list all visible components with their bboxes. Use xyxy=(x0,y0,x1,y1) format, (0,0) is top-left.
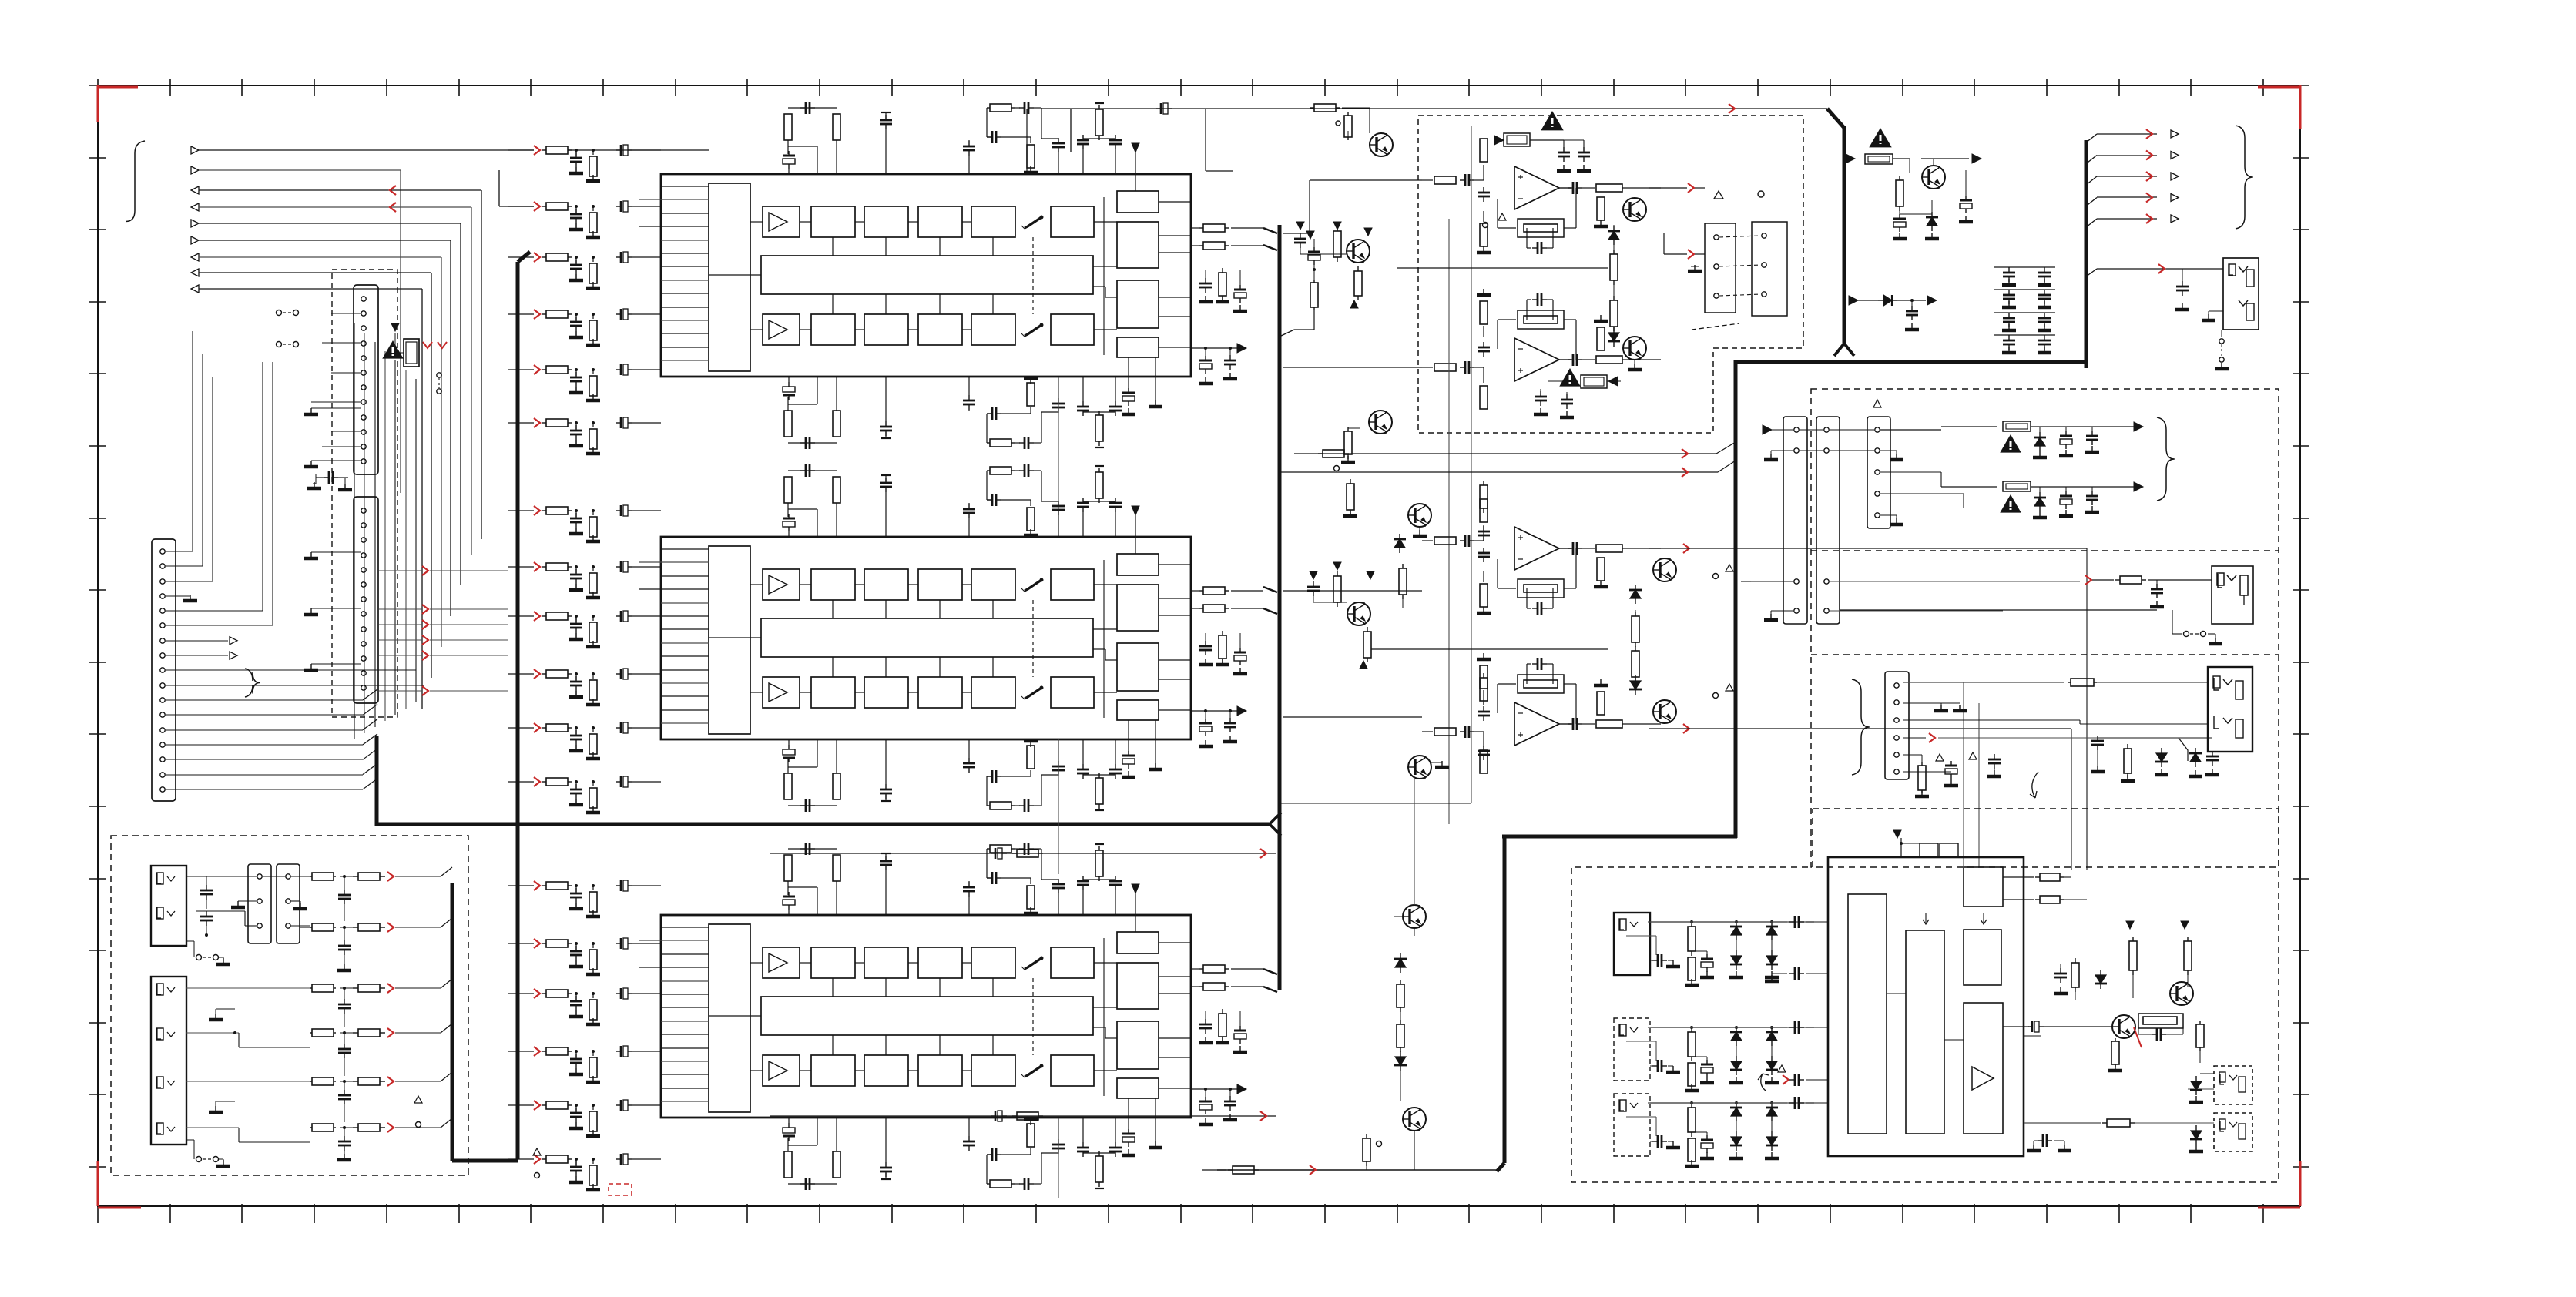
B2 connector 2 xyxy=(1816,417,1840,624)
bus V2 vertical xyxy=(375,736,379,826)
B1 transistor Q5 xyxy=(1369,411,1392,434)
BL row 3 xyxy=(310,987,312,989)
bus V4 vertical xyxy=(1503,836,1507,1163)
strip pins xyxy=(160,549,165,554)
vertical wire bundle xyxy=(354,323,355,739)
input RC filter row xyxy=(508,943,534,944)
input RC filter row xyxy=(508,781,534,783)
bottom wire y1519 xyxy=(1217,1169,1497,1171)
red corner mark bottom-right xyxy=(2299,1161,2302,1206)
chain transistor Q12 xyxy=(1403,1108,1426,1131)
input RC filter row xyxy=(508,615,534,617)
BL row 1 xyxy=(310,876,312,877)
B2 conn wires xyxy=(1763,425,1772,434)
B2 divider 2 xyxy=(1811,654,2279,655)
B1 bottom caps xyxy=(1540,389,1541,395)
bus H2 horizontal xyxy=(1502,835,1737,839)
input wire fan xyxy=(199,149,534,151)
connector stub wires xyxy=(331,313,361,314)
B1 gnd stub xyxy=(1691,266,1699,267)
BL switch 2 xyxy=(186,1139,194,1141)
input RC filter row xyxy=(508,885,534,886)
red check marks xyxy=(423,342,432,348)
B1 out arrows xyxy=(1688,183,1694,193)
op-amp U4B cluster xyxy=(1422,367,1433,368)
B2 jack switch xyxy=(2172,610,2173,634)
BL g2 gnd xyxy=(215,1009,216,1018)
B1 vertical wires xyxy=(1448,219,1450,824)
wire row y931 xyxy=(1283,716,1422,718)
connector dashed box xyxy=(332,270,397,717)
IC U3 output resistors xyxy=(1191,968,1199,970)
BL jack group 1 xyxy=(151,866,186,946)
B3 jack J4 diode xyxy=(2195,1125,2197,1131)
bottom row resistor xyxy=(1228,1169,1233,1171)
input RC filter row xyxy=(508,256,534,258)
TR brace xyxy=(2236,126,2253,229)
B3 jack J4 xyxy=(2214,1113,2252,1151)
input arrow lines xyxy=(191,146,199,154)
BL switch 1 xyxy=(186,940,194,942)
IC U1 V3 tap cluster xyxy=(1280,330,1294,337)
B1 relay boxes xyxy=(1705,223,1736,313)
B circles xyxy=(1713,574,1719,579)
B3 out wire 2 xyxy=(2024,1122,2101,1124)
row y1449 xyxy=(770,1115,1276,1117)
top long wire xyxy=(1041,108,1827,109)
strip brace xyxy=(245,669,260,697)
bus V1 vertical xyxy=(516,262,520,1159)
input RC filter row xyxy=(508,313,534,315)
B3 out transistors xyxy=(2112,1015,2135,1038)
B3 out wire 1 xyxy=(2003,1026,2029,1027)
TR capacitor grid xyxy=(1994,266,2055,268)
long wire y712 ext xyxy=(1736,548,2087,549)
B1 top feedback resistor xyxy=(1494,136,1504,145)
input RC filter row xyxy=(508,1104,534,1106)
red corner mark bottom-left xyxy=(97,1161,99,1206)
input RC filter row xyxy=(508,206,534,207)
B2 divider 1 xyxy=(1811,550,2279,551)
wire row y477 xyxy=(1283,367,1422,368)
B mid wire xyxy=(1371,648,1608,650)
IC U2 right ecap cluster xyxy=(1128,720,1129,754)
B transistor Q9 xyxy=(1653,700,1676,723)
input RC filter row xyxy=(508,727,534,729)
chain diodes xyxy=(1400,953,1401,959)
B transistor Q8 xyxy=(1653,558,1676,581)
connector strip CN C xyxy=(152,539,176,801)
mid red arrows xyxy=(422,566,428,575)
B1 transistor Q3 xyxy=(1623,198,1646,221)
BL mid caps 2 xyxy=(344,988,345,1003)
IC1 clock drop xyxy=(1026,109,1028,174)
warning resistor xyxy=(391,323,399,331)
connector CN A xyxy=(354,285,378,474)
switch contacts xyxy=(277,310,282,316)
B3 jack group 3 xyxy=(1614,1094,1650,1156)
bus V5 vertical xyxy=(1734,360,1738,838)
B2 right rc xyxy=(2091,740,2104,742)
input RC filter row xyxy=(508,1051,534,1052)
B1 transistor Q2 xyxy=(1347,240,1370,263)
B2 lower rc xyxy=(1921,762,1923,766)
wire drop x1565 xyxy=(1205,109,1206,171)
B horiz wire xyxy=(1280,803,1471,804)
BL row 5 xyxy=(310,1081,312,1082)
wire row y767 xyxy=(1283,590,1422,592)
IC U1 main block xyxy=(661,174,1191,377)
bus H1 horizontal xyxy=(375,823,1270,826)
B3 IC top xyxy=(1893,830,1901,838)
B3 output resistors xyxy=(2003,876,2034,878)
IC U3 main block xyxy=(661,915,1191,1118)
input RC filter row xyxy=(508,673,534,675)
B2 connector 3 xyxy=(1867,417,1890,528)
long wire y589 xyxy=(1294,453,1716,454)
IC U1 right ecap cluster xyxy=(1128,357,1129,391)
IC U3 right ecap cluster xyxy=(1128,1098,1129,1132)
TR warning xyxy=(1870,129,1890,146)
B out wires xyxy=(1683,544,1689,553)
B2 jack J1 xyxy=(2212,566,2253,624)
B3 rc cluster xyxy=(2054,973,2067,975)
B1 warning top xyxy=(1542,112,1562,129)
input RC filter row xyxy=(508,1158,534,1160)
IC U1 aux output arrow xyxy=(1191,347,1239,349)
long wire y613 xyxy=(1280,471,1718,473)
bus V1 bottom L xyxy=(452,1159,518,1163)
input RC filter row xyxy=(508,566,534,568)
B3 hook arrow xyxy=(1758,1074,1769,1091)
connector pins xyxy=(361,297,366,301)
B3 IC U6 xyxy=(1828,857,2024,1156)
RC cluster above IC xyxy=(788,107,837,109)
dashed box B2 xyxy=(1811,389,2279,867)
dashed box B1 xyxy=(1418,116,1803,433)
RC cluster below IC xyxy=(783,739,1122,812)
RC cluster above IC xyxy=(788,470,837,471)
IC U2 main block xyxy=(661,537,1191,739)
B2 jack J2 double xyxy=(2208,667,2252,752)
IC U1 output resistors xyxy=(1191,227,1199,229)
BL row 4 xyxy=(310,1032,312,1034)
BL row 6 xyxy=(310,1127,312,1128)
ruler tick marks xyxy=(97,79,99,96)
B2 jack row xyxy=(2079,580,2081,581)
IC U3 aux output arrow xyxy=(1191,1088,1239,1090)
TR diode row xyxy=(1849,296,1858,305)
red dashed small box xyxy=(609,1184,632,1195)
row y1108 xyxy=(770,853,1276,854)
chain transistor Q11 xyxy=(1403,905,1426,928)
IC U2 output resistors xyxy=(1191,590,1199,592)
top rail wire xyxy=(568,149,709,151)
B2 lower wires xyxy=(1903,682,2064,683)
mid resistor cluster xyxy=(1318,453,1323,454)
bus V7 from top xyxy=(1827,109,1844,128)
B2 brace xyxy=(2157,417,2175,501)
B3 jack group 1 xyxy=(1614,913,1650,975)
TR headphone row xyxy=(2086,269,2097,276)
BL jack group 2 xyxy=(151,977,186,1145)
IC U3 right RC column xyxy=(1205,1011,1206,1023)
RC cluster below IC xyxy=(783,377,1122,449)
B3 caps into IC xyxy=(1648,921,1787,923)
strip pin wires xyxy=(166,551,193,552)
TR transistor Q13 xyxy=(1922,166,1945,189)
bus V3 top chevrons xyxy=(1263,228,1277,250)
B2 supply row 1 xyxy=(1941,426,1997,427)
long wire y946 ext xyxy=(2071,729,2072,870)
B3 jack J3 diode xyxy=(2195,1076,2197,1081)
red corner mark top-left xyxy=(97,85,99,122)
BL row 2 xyxy=(310,927,312,928)
op-amp U5B cluster xyxy=(1422,731,1433,732)
triangle circle marks 1 xyxy=(414,1096,422,1103)
B1 labels xyxy=(1483,223,1488,228)
IC U2 aux output arrow xyxy=(1191,710,1239,712)
red corner mark top-right xyxy=(2299,85,2302,129)
bus V6 vertical xyxy=(2085,140,2088,368)
B3 caps under xyxy=(2034,1140,2041,1141)
B1 transistor Q4 xyxy=(1623,337,1646,360)
B1 transistor Q1 xyxy=(1370,133,1393,156)
B3 jack J3 xyxy=(2214,1066,2252,1104)
triangle circle marks 2 xyxy=(533,1148,541,1155)
B transistor Q10 xyxy=(1408,756,1431,779)
RC cluster above IC xyxy=(788,848,837,850)
chain resistor xyxy=(1366,1134,1367,1138)
wire row y303 xyxy=(1283,233,1310,234)
bus V3 chevron join xyxy=(1270,813,1281,824)
B transistor Q6 xyxy=(1408,504,1431,527)
input RC filter row xyxy=(508,422,534,424)
B resistor col x1926 xyxy=(1483,481,1484,485)
bus H3 horizontal xyxy=(1736,360,2088,364)
input RC filter row xyxy=(508,510,534,511)
B3 res stubs xyxy=(2115,1038,2116,1041)
IC U2 right RC column xyxy=(1205,633,1206,645)
op-amp U4A cluster xyxy=(1422,179,1433,181)
BL dashed box xyxy=(111,836,468,1175)
input RC filter row xyxy=(508,369,534,370)
bus V3 vertical xyxy=(1278,225,1282,990)
B1 bottom feedback resistor xyxy=(1561,370,1579,386)
IC U1 right RC column xyxy=(1205,270,1206,282)
connector CN B xyxy=(354,497,378,703)
input RC filter row xyxy=(508,149,534,151)
B3 feedback xyxy=(2138,1014,2183,1028)
cap pair with grounds xyxy=(313,483,316,484)
TR RC xyxy=(1899,176,1900,180)
B3 group wires xyxy=(1813,899,1815,900)
BL group1 caps xyxy=(186,876,231,877)
BL mid caps xyxy=(344,876,345,893)
B3 red mark xyxy=(2134,1027,2142,1047)
B transistor Q7 xyxy=(1347,602,1370,625)
left brace xyxy=(126,141,145,222)
dashed box B3 xyxy=(1571,809,2279,1182)
B2 lower brace xyxy=(1852,679,1870,775)
B2 connector 4 xyxy=(1885,672,1909,779)
B2 connector 1 xyxy=(1783,417,1807,624)
op-amp U5A cluster xyxy=(1422,540,1433,541)
TR supply arrows xyxy=(2086,134,2097,142)
TR input resistor xyxy=(1846,154,1855,163)
B3 jack group 2 xyxy=(1614,1018,1650,1081)
BL connectors xyxy=(248,864,271,943)
B diode chain xyxy=(1399,534,1400,539)
RC cluster below IC xyxy=(783,1118,1122,1190)
B1 mid wire xyxy=(1397,267,1608,269)
B2 supply row 2 xyxy=(1941,486,1997,488)
border frame xyxy=(98,85,2300,1206)
input RC filter row xyxy=(508,993,534,994)
